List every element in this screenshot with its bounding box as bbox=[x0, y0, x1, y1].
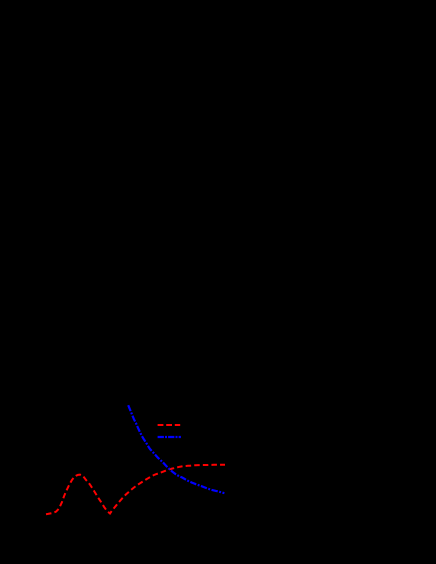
red dashed curve bbox=[46, 465, 225, 515]
legend blue dash-dot line sample bbox=[158, 436, 181, 438]
blue dash-dot curve bbox=[128, 405, 224, 493]
legend red dashed line sample bbox=[158, 424, 181, 426]
